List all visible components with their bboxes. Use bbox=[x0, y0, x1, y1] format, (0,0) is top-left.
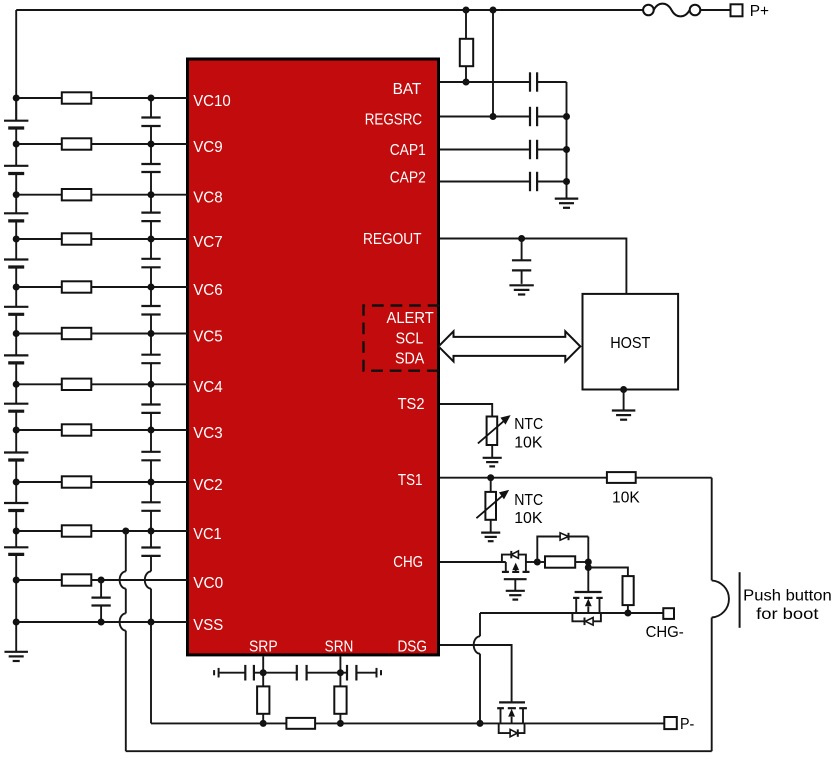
svg-text:NTC: NTC bbox=[514, 416, 543, 433]
node REGSRC cap rail bbox=[563, 113, 570, 120]
wire Q3 to node bbox=[526, 561, 537, 563]
battery cell VC10-VC9 bbox=[4, 120, 28, 122]
wire caprail up to VC1 bbox=[150, 511, 152, 531]
node VC2 rail junction bbox=[13, 479, 20, 486]
wire SRP pin down bbox=[262, 656, 264, 686]
wire VC7 resistor to chip bbox=[91, 238, 187, 240]
svg-text:SCL: SCL bbox=[395, 331, 423, 348]
terminal P+ bbox=[731, 4, 743, 16]
svg-text:10K: 10K bbox=[514, 435, 543, 452]
wire caprail VC2 down bbox=[150, 482, 152, 502]
node VC1 caprail junction bbox=[148, 528, 155, 535]
wire rail to resistor bbox=[465, 10, 467, 39]
wire cell to rail VC3 bbox=[15, 411, 17, 430]
node CAP2 cap rail bbox=[563, 178, 570, 185]
wire VC8 resistor to chip bbox=[91, 194, 187, 196]
wire stub to cap bbox=[219, 672, 246, 674]
node VC6 caprail junction bbox=[148, 284, 155, 291]
node VC4 caprail junction bbox=[148, 381, 155, 388]
node VC8 rail junction bbox=[13, 191, 20, 198]
wire REGSRC capacitor to ground rail bbox=[537, 116, 566, 118]
transistor Q1 charge FET bbox=[575, 591, 602, 593]
node REGSRC junction bbox=[490, 113, 497, 120]
wire TS1 down to thermistor bbox=[490, 478, 492, 492]
node VC3 caprail junction bbox=[148, 427, 155, 434]
svg-text:SRP: SRP bbox=[249, 638, 278, 655]
node VC6 rail junction bbox=[13, 284, 20, 291]
battery cell VC7-VC6 bbox=[4, 258, 28, 260]
node VC10 rail junction bbox=[13, 95, 20, 102]
svg-text:VC9: VC9 bbox=[193, 139, 223, 156]
wire cap ground rail vertical bbox=[566, 82, 568, 198]
wire cell to rail VC0 bbox=[15, 554, 17, 580]
wire REGSRC pullup vertical bbox=[492, 10, 494, 117]
wire VC4 resistor to chip bbox=[91, 383, 187, 385]
wire caprail up to VC7 bbox=[150, 221, 152, 239]
wire VC1 down to cap bbox=[150, 531, 152, 548]
wire left PACK+ rail down to VC10 bbox=[15, 10, 17, 121]
svg-text:REGSRC: REGSRC bbox=[365, 112, 422, 129]
wire VC1 resistor to chip bbox=[91, 530, 187, 532]
wire rail VC8 to cell bbox=[15, 195, 17, 214]
wire REGSRC pin to capacitor bbox=[440, 116, 530, 118]
wire hop over VC0 row bbox=[120, 571, 126, 588]
capacitor C-CAP1 bbox=[529, 140, 531, 159]
svg-text:ALERT: ALERT bbox=[387, 310, 434, 327]
thermistor RT2 body bbox=[487, 417, 498, 446]
bus arrow I2C chip-HOST bbox=[439, 331, 581, 361]
wire cap to SRP to cap bbox=[254, 672, 297, 674]
resistor RVC8 series filter bbox=[62, 189, 92, 200]
wire PACK+ top rail bbox=[16, 9, 643, 11]
terminal P- bbox=[664, 717, 677, 729]
wire resistor to BAT bbox=[465, 66, 467, 82]
battery cell VC8-VC7 bbox=[4, 212, 28, 214]
thermistor RT2 arrow bbox=[478, 418, 507, 443]
wire cell to rail VC8 bbox=[15, 174, 17, 195]
fuse F1 element bbox=[654, 4, 690, 17]
wire DSG pin to Q2 gate bbox=[440, 645, 512, 702]
svg-text:CHG: CHG bbox=[393, 554, 423, 571]
node VC9 rail junction bbox=[13, 141, 20, 148]
wire caprail VC3 down bbox=[150, 430, 152, 452]
wire VC3 resistor to chip bbox=[91, 429, 187, 431]
wire cell to rail VC2 bbox=[15, 460, 17, 482]
wire rail VC3 to cell bbox=[15, 430, 17, 453]
svg-text:HOST: HOST bbox=[610, 335, 650, 352]
wire P- sense rail left segment bbox=[151, 722, 286, 724]
svg-text:P+: P+ bbox=[750, 3, 769, 20]
wire VC8 rail to resistor bbox=[16, 194, 62, 196]
svg-text:VC6: VC6 bbox=[193, 282, 223, 299]
node VSS sense junction bbox=[148, 619, 155, 626]
wire VC6 resistor to chip bbox=[91, 286, 187, 288]
wire VC4 rail to resistor bbox=[16, 383, 62, 385]
capacitor C-BAT bbox=[529, 72, 531, 91]
svg-text:SRN: SRN bbox=[325, 638, 354, 655]
wire hop to VSS junction bbox=[150, 589, 152, 622]
wire VC5 resistor to chip bbox=[91, 333, 187, 335]
wire caprail up to VC3 bbox=[150, 413, 152, 430]
node HOST ground tap bbox=[620, 386, 627, 393]
wire Q1 rail down to P- rail (hops DSG) bbox=[479, 613, 481, 636]
wire CAP1 capacitor to ground rail bbox=[537, 149, 566, 151]
resistor RVC2 series filter bbox=[62, 476, 92, 487]
wire VC2 rail to resistor bbox=[16, 481, 62, 483]
resistor RVC3 series filter bbox=[62, 424, 92, 435]
svg-text:VC10: VC10 bbox=[193, 93, 231, 110]
wire SRN resistor to P- rail bbox=[339, 714, 341, 724]
resistor R-BAT bbox=[460, 39, 473, 66]
node BAT resistor junction bbox=[463, 79, 470, 86]
wire cell to rail VC1 bbox=[15, 511, 17, 532]
wire rail VC7 to cell bbox=[15, 239, 17, 260]
wire SRN pin down bbox=[339, 656, 341, 686]
ground HOST bbox=[612, 409, 636, 411]
svg-text:CAP2: CAP2 bbox=[390, 170, 426, 187]
capacitor CVC7-VC6 balance bbox=[141, 258, 160, 260]
wire VC9 resistor to chip bbox=[91, 143, 187, 145]
node gate junction lower bbox=[585, 564, 592, 571]
svg-text:10K: 10K bbox=[612, 489, 640, 506]
sense filter right stub bbox=[376, 668, 378, 678]
wire P- rail to terminal bbox=[315, 722, 664, 724]
svg-text:REGOUT: REGOUT bbox=[363, 231, 422, 248]
node VC0 rail junction bbox=[13, 577, 20, 584]
wire VC1 rail to resistor bbox=[16, 530, 62, 532]
node VC8 caprail junction bbox=[148, 191, 155, 198]
capacitor C-CAP2 bbox=[529, 172, 531, 191]
wire VC6 rail to resistor bbox=[16, 286, 62, 288]
wire caprail VC8 down bbox=[150, 195, 152, 213]
wire cell to rail VC5 bbox=[15, 314, 17, 333]
svg-text:BAT: BAT bbox=[393, 81, 422, 98]
wire caprail up to VC9 bbox=[150, 126, 152, 144]
wire VC2 resistor to chip bbox=[91, 481, 187, 483]
resistor RVC7 series filter bbox=[62, 233, 92, 244]
transistor Q2 discharge FET bbox=[499, 701, 525, 703]
wire bottom boot rail bbox=[126, 750, 712, 752]
svg-text:for boot: for boot bbox=[756, 606, 819, 623]
svg-text:DSG: DSG bbox=[397, 638, 427, 655]
wire VC7 rail to resistor bbox=[16, 238, 62, 240]
wire between hops bbox=[125, 589, 127, 614]
capacitor C-REGOUT bbox=[512, 259, 531, 261]
ground Q3 gate bbox=[506, 590, 525, 592]
wire CAP1 pin to capacitor bbox=[440, 149, 530, 151]
capacitor CVC2-VC1 balance bbox=[141, 501, 160, 503]
wire D2 to gate node bbox=[569, 536, 589, 538]
capacitor C-REGSRC bbox=[529, 107, 531, 126]
wire caprail up to VC4 bbox=[150, 363, 152, 384]
wire VSS row bbox=[16, 621, 187, 623]
wire caprail VC9 down bbox=[150, 144, 152, 164]
node top rail resistor tap bbox=[463, 7, 470, 14]
wire SRP resistor to P- rail bbox=[262, 714, 264, 724]
capacitor CVC9-VC8 balance bbox=[141, 163, 160, 165]
wire VC10 resistor to chip bbox=[91, 97, 187, 99]
transistor Q3 protection FET bbox=[505, 562, 507, 572]
resistor RVC1 series filter bbox=[62, 525, 92, 536]
svg-text:SDA: SDA bbox=[395, 351, 425, 368]
node VC5 rail junction bbox=[13, 330, 20, 337]
resistor RVC9 series filter bbox=[62, 138, 92, 149]
diode D3 body (Q3) bbox=[502, 555, 511, 562]
wire cell to rail VC9 bbox=[15, 128, 17, 144]
wire rail VC1 to cell bbox=[15, 531, 17, 547]
node VC1 boot tap bbox=[122, 528, 129, 535]
diode D1 body (Q1) bbox=[572, 613, 584, 621]
capacitor CVC4-VC3 balance bbox=[141, 403, 160, 405]
node VSS cap tap bbox=[98, 619, 105, 626]
wire cell to rail VC4 bbox=[15, 363, 17, 384]
wire right rail up to push button bbox=[711, 618, 713, 752]
svg-text:VC2: VC2 bbox=[193, 477, 223, 494]
node VC3 rail junction bbox=[13, 427, 20, 434]
node VC4 rail junction bbox=[13, 381, 20, 388]
dashed I2C port box bbox=[364, 306, 440, 371]
wire VC0 down to cap bbox=[100, 580, 102, 598]
wire rail VC0 to VSS bbox=[15, 580, 17, 622]
resistor R-boot 10K bbox=[607, 472, 636, 483]
wire CHG pin to Q3 bbox=[440, 561, 506, 563]
wire gate node to pulldown resistor bbox=[588, 568, 628, 577]
capacitor C-VC0-VSS bbox=[91, 596, 110, 598]
wire caprail VC5 down bbox=[150, 334, 152, 355]
wire cap down to VC0 hop bbox=[150, 556, 152, 572]
push button SW1 contact arc bbox=[712, 580, 729, 617]
wire caprail up to VC8 bbox=[150, 172, 152, 195]
wire VC9 rail to resistor bbox=[16, 143, 62, 145]
wire Q3 gate to ground bbox=[514, 579, 516, 591]
node VC5 caprail junction bbox=[148, 330, 155, 337]
wire cap to VSS row bbox=[100, 606, 102, 623]
wire CAP2 capacitor to ground rail bbox=[537, 181, 566, 183]
wire VC0 resistor to chip bbox=[91, 579, 187, 581]
capacitor CVC10-VC9 balance bbox=[141, 116, 160, 118]
node VC1 rail junction bbox=[13, 528, 20, 535]
wire pulldown to CHG- rail bbox=[627, 605, 629, 613]
svg-text:VC1: VC1 bbox=[193, 526, 222, 543]
node REGOUT cap tap bbox=[518, 235, 525, 242]
node VC7 caprail junction bbox=[148, 236, 155, 243]
capacitor CVC3-VC2 balance bbox=[141, 451, 160, 453]
wire rail VC9 to cell bbox=[15, 144, 17, 166]
svg-text:P-: P- bbox=[680, 716, 694, 733]
wire TS1 to 10K resistor bbox=[440, 477, 607, 479]
wire RT1 to ground bbox=[490, 520, 492, 533]
wire rail VC4 to cell bbox=[15, 384, 17, 403]
battery cell VC5-VC4 bbox=[4, 354, 28, 356]
svg-text:NTC: NTC bbox=[514, 492, 543, 509]
capacitor C-SRN right bbox=[346, 665, 348, 681]
node VC9 caprail junction bbox=[148, 141, 155, 148]
wire hop over VSS row bbox=[120, 613, 126, 630]
wire caprail up to VC2 bbox=[150, 460, 152, 482]
wire VC0 rail to resistor bbox=[16, 579, 62, 581]
svg-text:CAP1: CAP1 bbox=[390, 142, 426, 159]
wire BAT pin to capacitor bbox=[440, 81, 530, 83]
sense filter left stub bbox=[213, 670, 215, 675]
wire cell to rail VC7 bbox=[15, 221, 17, 239]
svg-text:Push button: Push button bbox=[743, 587, 832, 604]
ground RT1 bbox=[481, 531, 500, 533]
wire gate vertical bbox=[587, 537, 589, 593]
wire VC5 rail to resistor bbox=[16, 333, 62, 335]
resistor R-sense shunt bbox=[286, 718, 315, 729]
capacitor CVC5-VC4 balance bbox=[141, 354, 160, 356]
wire 10K to right rail corner bbox=[636, 477, 712, 479]
node SRP filter tap bbox=[260, 669, 267, 676]
node VC10 caprail junction bbox=[148, 95, 155, 102]
svg-text:TS1: TS1 bbox=[398, 472, 423, 489]
resistor RVC0 series filter bbox=[62, 574, 92, 585]
resistor RVC4 series filter bbox=[62, 379, 92, 390]
wire REGOUT down to cap bbox=[521, 239, 523, 261]
wire Q1 source rail to CHG- terminal bbox=[480, 612, 663, 614]
resistor R-SRN bbox=[334, 686, 346, 713]
node CHG gate drive bbox=[534, 559, 541, 566]
svg-text:TS2: TS2 bbox=[398, 396, 425, 413]
wire caprail VC4 down bbox=[150, 384, 152, 404]
svg-text:10K: 10K bbox=[514, 510, 543, 527]
node VSS rail junction bbox=[13, 619, 20, 626]
node CAP1 cap rail bbox=[563, 146, 570, 153]
terminal CHG- bbox=[663, 608, 674, 619]
node TS1 thermistor tap bbox=[487, 474, 494, 481]
node SRP P- rail bbox=[260, 720, 267, 727]
wire down to bottom rail bbox=[125, 631, 127, 752]
resistor R-CHG pulldown bbox=[623, 576, 634, 605]
svg-text:VC0: VC0 bbox=[193, 575, 223, 592]
wire BAT capacitor to ground rail bbox=[537, 81, 566, 83]
svg-text:VC7: VC7 bbox=[193, 234, 223, 251]
block HOST bbox=[583, 294, 679, 390]
wire caprail VC6 down bbox=[150, 287, 152, 306]
node P- rail FET tap bbox=[477, 720, 484, 727]
node VC2 caprail junction bbox=[148, 479, 155, 486]
wire VC10 rail to resistor bbox=[16, 97, 62, 99]
wire rail VC10 to cell bbox=[15, 98, 17, 121]
wire rail VC6 to cell bbox=[15, 287, 17, 307]
wire HOST to ground bbox=[623, 390, 625, 410]
wire cap to SRN to cap bbox=[307, 672, 347, 674]
capacitor C-VC1-VSS bbox=[141, 546, 160, 548]
IC U1 battery monitor (red body) bbox=[188, 59, 439, 655]
node SRN filter tap bbox=[337, 669, 344, 676]
wire cell to rail VC6 bbox=[15, 267, 17, 287]
wire CAP2 pin to capacitor bbox=[440, 181, 530, 183]
wire VC3 rail to resistor bbox=[16, 429, 62, 431]
resistor RVC10 series filter bbox=[62, 92, 92, 103]
wire rail VC5 to cell bbox=[15, 334, 17, 356]
resistor RVC5 series filter bbox=[62, 328, 92, 339]
ground REGOUT cap bbox=[509, 284, 533, 286]
wire caprail up to VC6 bbox=[150, 267, 152, 287]
wire fuse to P+ terminal bbox=[700, 9, 730, 11]
capacitor CVC6-VC5 balance bbox=[141, 305, 160, 307]
node VC0 cap tap bbox=[98, 577, 105, 584]
wire RT2 to ground bbox=[491, 445, 493, 458]
wire cap to ground bbox=[521, 270, 523, 284]
wire resistor leads bbox=[537, 561, 545, 563]
wire hop over VC0 row bbox=[145, 571, 151, 588]
svg-text:VC5: VC5 bbox=[193, 328, 223, 345]
battery cell VC3-VC2 bbox=[4, 451, 28, 453]
battery cell VC9-VC8 bbox=[4, 165, 28, 167]
push button actuator bar bbox=[739, 572, 741, 628]
diode D4 body (Q2) bbox=[499, 723, 510, 733]
ground RT2 bbox=[483, 457, 502, 459]
wire caprail up to VC5 bbox=[150, 315, 152, 334]
capacitor C-SRP-SRN bbox=[296, 665, 298, 681]
battery cell VC4-VC3 bbox=[4, 403, 28, 405]
wire REGOUT to HOST corner bbox=[440, 239, 626, 294]
wire VSS down to P- sense rail bbox=[150, 622, 152, 723]
thermistor RT1 body bbox=[485, 492, 496, 520]
node gate junction upper bbox=[585, 559, 592, 566]
wire VC1 down to VC0 hop bbox=[125, 531, 127, 571]
battery cell VC2-VC1 bbox=[4, 502, 28, 504]
svg-text:VC8: VC8 bbox=[193, 190, 223, 207]
svg-text:VSS: VSS bbox=[193, 617, 223, 634]
wire TS2 to thermistor bbox=[440, 404, 492, 417]
capacitor CVC8-VC7 balance bbox=[141, 212, 160, 214]
fuse F1 right pad bbox=[690, 5, 701, 16]
ground capacitor rail bbox=[555, 198, 579, 200]
wire node up to diode D2 bbox=[537, 537, 560, 563]
capacitor C-SRP left bbox=[244, 665, 246, 681]
fuse F1 left pad bbox=[643, 5, 654, 16]
resistor R-SRP bbox=[257, 686, 269, 713]
wire VSS to ground stem bbox=[15, 622, 17, 651]
diode D2 gate bypass bbox=[560, 533, 568, 540]
wire cap to right stub bbox=[356, 672, 376, 674]
wire rail VC2 to cell bbox=[15, 482, 17, 503]
node CHG- rail resistor tap bbox=[624, 610, 631, 617]
resistor R-CHG gate bbox=[545, 556, 575, 567]
battery cell VC6-VC5 bbox=[4, 306, 28, 308]
svg-text:CHG-: CHG- bbox=[646, 624, 684, 641]
node VC7 rail junction bbox=[13, 236, 20, 243]
ground battery stack bbox=[4, 651, 28, 653]
node top rail REGSRC tap bbox=[490, 7, 497, 14]
svg-text:VC3: VC3 bbox=[193, 425, 223, 442]
svg-text:VC4: VC4 bbox=[193, 379, 223, 396]
wire right rail push button to 10K bbox=[711, 478, 713, 581]
wire caprail VC10 down bbox=[150, 98, 152, 118]
battery cell VC1-VC0 bbox=[4, 546, 28, 548]
thermistor RT1 arrow bbox=[476, 493, 505, 518]
wire caprail VC7 down bbox=[150, 239, 152, 259]
resistor RVC6 series filter bbox=[62, 281, 92, 292]
node SRN P- rail bbox=[337, 720, 344, 727]
